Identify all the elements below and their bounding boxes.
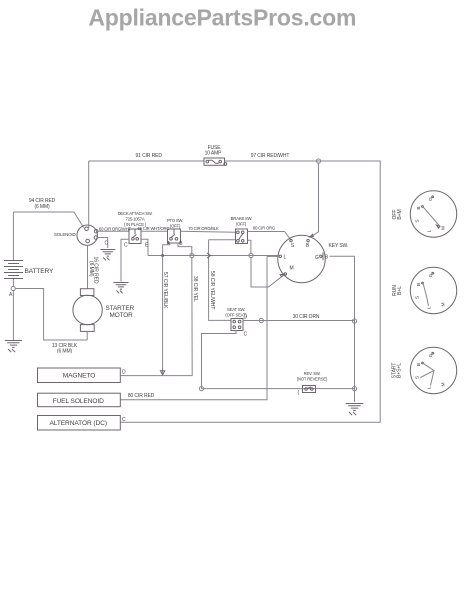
svg-text:D: D	[244, 315, 248, 321]
svg-text:PTO SW.: PTO SW.	[167, 218, 183, 223]
svg-text:M: M	[441, 226, 447, 230]
svg-text:BRAKE SW.: BRAKE SW.	[231, 216, 252, 221]
svg-text:DECK ATTACH SW.: DECK ATTACH SW.	[118, 211, 153, 216]
svg-text:C: C	[244, 332, 248, 338]
svg-text:65 CIR WHT/ORG: 65 CIR WHT/ORG	[138, 226, 170, 231]
svg-text:L: L	[427, 306, 433, 309]
svg-text:S: S	[415, 376, 421, 379]
svg-text:10 AMP: 10 AMP	[205, 151, 223, 157]
svg-text:KEY SW.: KEY SW.	[329, 243, 349, 249]
svg-text:(: (	[298, 390, 300, 396]
svg-text:M: M	[289, 266, 293, 272]
svg-text:(OFF): (OFF)	[170, 224, 181, 229]
svg-text:B+M: B+M	[397, 209, 403, 219]
svg-text:B+S+L: B+S+L	[397, 363, 403, 378]
svg-text:30 CIR ORN: 30 CIR ORN	[293, 314, 320, 320]
svg-text:M: M	[441, 383, 447, 387]
svg-text:L: L	[427, 386, 433, 389]
svg-text:80 CIR ORG: 80 CIR ORG	[253, 226, 275, 231]
svg-text:91 CIR RED: 91 CIR RED	[136, 153, 163, 159]
svg-text:C: C	[124, 243, 128, 249]
svg-text:A: A	[9, 292, 13, 298]
svg-text:80 CIR RED: 80 CIR RED	[128, 393, 155, 399]
svg-text:38 CIR YEL: 38 CIR YEL	[192, 276, 198, 302]
svg-text:C: C	[105, 241, 109, 247]
svg-text:97 CIR RED/WHT: 97 CIR RED/WHT	[251, 153, 290, 159]
svg-text:B: B	[416, 283, 422, 286]
svg-text:B: B	[416, 206, 422, 209]
svg-text:(6 MM): (6 MM)	[57, 349, 73, 355]
svg-text:G: G	[315, 255, 319, 261]
svg-text:AppliancePartsPros.com: AppliancePartsPros.com	[88, 5, 356, 31]
svg-text:57 CIR YEL/BLK: 57 CIR YEL/BLK	[162, 272, 168, 309]
svg-text:B+L: B+L	[397, 286, 403, 295]
svg-text:(NOT REVERSE): (NOT REVERSE)	[297, 377, 328, 382]
svg-text:FUEL SOLENOID: FUEL SOLENOID	[53, 398, 105, 405]
svg-text:725-1057A: 725-1057A	[126, 217, 145, 222]
svg-text:L: L	[427, 229, 433, 232]
svg-text:(OFF): (OFF)	[236, 222, 247, 227]
svg-text:MOTOR: MOTOR	[110, 312, 134, 319]
svg-text:S: S	[415, 296, 421, 299]
svg-text:60 CIR ORG/WHT: 60 CIR ORG/WHT	[99, 227, 132, 232]
svg-text:BATTERY: BATTERY	[25, 268, 55, 275]
svg-text:M: M	[441, 303, 447, 307]
svg-text:16 CIR RED: 16 CIR RED	[93, 257, 99, 284]
svg-text:70 CIR ORG/BLK: 70 CIR ORG/BLK	[188, 226, 219, 231]
svg-text:B: B	[325, 255, 329, 261]
svg-text:B: B	[416, 363, 422, 366]
svg-text:D: D	[122, 370, 126, 376]
svg-text:REV. SW.: REV. SW.	[304, 371, 321, 376]
svg-text:MAGNETO: MAGNETO	[63, 373, 96, 380]
svg-text:S: S	[415, 219, 421, 222]
svg-text:ALTERNATOR (DC): ALTERNATOR (DC)	[49, 420, 106, 427]
svg-text:SOLENOID: SOLENOID	[54, 232, 76, 237]
svg-text:C: C	[122, 417, 126, 423]
svg-text:(6 MM): (6 MM)	[34, 204, 50, 210]
svg-text:SEAT SW.: SEAT SW.	[227, 307, 245, 312]
svg-text:B: B	[306, 243, 310, 249]
svg-text:58 CIR YEL/WHT: 58 CIR YEL/WHT	[209, 271, 215, 309]
svg-text:L: L	[284, 255, 287, 261]
svg-text:S: S	[291, 243, 295, 249]
